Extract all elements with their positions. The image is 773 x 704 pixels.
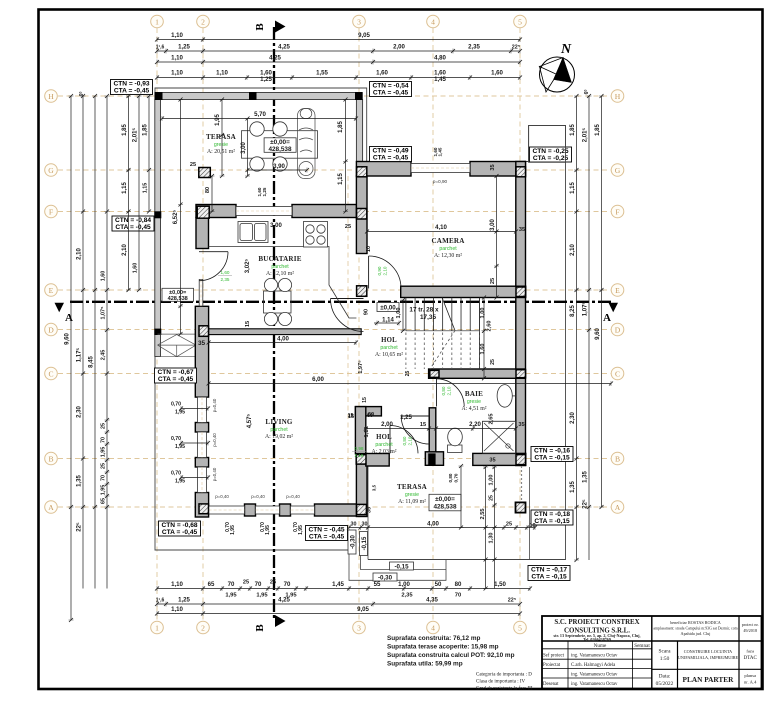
svg-text:70: 70 xyxy=(255,581,262,588)
svg-text:1,25: 1,25 xyxy=(178,597,190,604)
svg-text:17 tr. 28 x: 17 tr. 28 x xyxy=(409,307,439,314)
wc toilet xyxy=(448,428,463,452)
svg-text:Suprafata construita calcul PO: Suprafata construita calcul POT: 92,10 m… xyxy=(387,652,515,659)
svg-text:Grad de rezistenta la foc: II: Grad de rezistenta la foc: III xyxy=(476,687,533,692)
svg-text:1: 1 xyxy=(155,623,159,632)
svg-text:428,538: 428,538 xyxy=(168,296,188,302)
svg-text:±0,00=: ±0,00= xyxy=(435,496,455,503)
svg-text:3,00: 3,00 xyxy=(241,142,247,154)
svg-text:1,95: 1,95 xyxy=(101,447,107,458)
svg-text:p=0,90: p=0,90 xyxy=(433,179,448,184)
svg-text:proiect nr.: proiect nr. xyxy=(742,622,759,627)
svg-text:1,60: 1,60 xyxy=(101,271,107,282)
svg-text:CTN = -0,54: CTN = -0,54 xyxy=(372,83,408,90)
svg-text:35: 35 xyxy=(367,507,373,513)
svg-text:60: 60 xyxy=(367,413,373,419)
svg-text:1,95: 1,95 xyxy=(298,525,304,535)
svg-text:1,60: 1,60 xyxy=(376,70,388,77)
svg-text:HOL: HOL xyxy=(381,337,397,344)
svg-text:1,35: 1,35 xyxy=(77,475,83,487)
svg-text:35: 35 xyxy=(518,422,524,428)
svg-text:Suprafata utila: 59,99 mp: Suprafata utila: 59,99 mp xyxy=(387,661,463,668)
svg-text:0,70: 0,70 xyxy=(171,471,181,477)
svg-text:70: 70 xyxy=(228,581,235,588)
terrace columns (black) xyxy=(154,92,362,335)
svg-text:CTN = -0,18: CTN = -0,18 xyxy=(534,511,570,518)
svg-text:2: 2 xyxy=(201,17,205,26)
svg-text:CAMERA: CAMERA xyxy=(431,237,465,245)
svg-text:5: 5 xyxy=(518,623,522,632)
svg-text:1,45: 1,45 xyxy=(434,76,446,83)
svg-text:1,95: 1,95 xyxy=(175,479,185,485)
right dimension chains xyxy=(576,96,578,560)
svg-text:1,45: 1,45 xyxy=(332,581,344,588)
svg-text:6,00: 6,00 xyxy=(312,376,324,383)
svg-text:4,00: 4,00 xyxy=(427,521,439,528)
svg-text:3: 3 xyxy=(357,623,361,632)
svg-text:9,60: 9,60 xyxy=(595,328,601,340)
svg-text:1,10: 1,10 xyxy=(171,606,183,613)
svg-text:1,10: 1,10 xyxy=(216,70,228,77)
svg-text:6,52⁵: 6,52⁵ xyxy=(173,210,179,225)
svg-text:parchet: parchet xyxy=(270,427,288,433)
svg-text:70: 70 xyxy=(101,475,107,481)
svg-text:0,80: 0,80 xyxy=(402,436,407,445)
svg-text:CTN = -0,25: CTN = -0,25 xyxy=(532,148,568,155)
svg-text:25: 25 xyxy=(506,522,512,528)
svg-text:2,30: 2,30 xyxy=(570,412,576,424)
svg-text:1:50: 1:50 xyxy=(660,656,670,662)
svg-text:25: 25 xyxy=(101,423,107,429)
svg-text:CTA = -0,45: CTA = -0,45 xyxy=(309,534,345,541)
svg-text:4: 4 xyxy=(431,623,435,632)
svg-text:±0,00=: ±0,00= xyxy=(169,290,187,296)
svg-text:ing. Vatamanescu Octav: ing. Vatamanescu Octav xyxy=(571,673,618,678)
svg-text:4,57⁵: 4,57⁵ xyxy=(247,414,253,429)
svg-text:1,85: 1,85 xyxy=(338,121,344,133)
svg-text:2,10: 2,10 xyxy=(122,244,128,256)
svg-text:-0,30: -0,30 xyxy=(350,535,356,549)
svg-text:1,10: 1,10 xyxy=(171,32,183,39)
svg-text:±0,00: ±0,00 xyxy=(380,304,396,311)
svg-text:4,25: 4,25 xyxy=(278,44,290,51)
svg-text:4,00: 4,00 xyxy=(277,336,289,343)
svg-text:1,85: 1,85 xyxy=(595,124,601,136)
svg-text:C: C xyxy=(48,369,53,378)
svg-text:1,00: 1,00 xyxy=(480,308,486,319)
svg-text:2,30: 2,30 xyxy=(77,406,83,418)
west porch canopy xyxy=(158,334,197,357)
svg-text:10: 10 xyxy=(366,246,372,252)
svg-text:A: 4,51 m²: A: 4,51 m² xyxy=(461,406,486,412)
svg-text:-0,15: -0,15 xyxy=(394,563,409,570)
svg-text:3,5: 3,5 xyxy=(372,484,377,491)
svg-text:A: 12,30 m²: A: 12,30 m² xyxy=(434,253,462,259)
level boxes xyxy=(264,138,296,153)
svg-text:1,00: 1,00 xyxy=(396,308,402,319)
svg-text:15: 15 xyxy=(420,422,426,428)
svg-text:1,35: 1,35 xyxy=(570,481,576,493)
svg-text:25: 25 xyxy=(345,224,351,230)
svg-text:D: D xyxy=(48,325,54,334)
svg-text:CTN = -0,67: CTN = -0,67 xyxy=(157,369,193,376)
svg-text:Semnat: Semnat xyxy=(634,643,650,649)
svg-text:90: 90 xyxy=(364,309,370,315)
svg-text:CTA = -0,15: CTA = -0,15 xyxy=(534,518,570,525)
svg-text:nr. A.4: nr. A.4 xyxy=(744,680,757,685)
grid axis dashed lines xyxy=(156,28,158,621)
svg-text:0,70: 0,70 xyxy=(171,436,181,442)
svg-text:gresie: gresie xyxy=(214,142,228,148)
svg-text:beneficiar ROSTAS RODICA: beneficiar ROSTAS RODICA xyxy=(670,620,721,625)
svg-text:8,45: 8,45 xyxy=(89,356,95,368)
svg-text:2,10: 2,10 xyxy=(77,248,83,260)
roof overhang outline xyxy=(155,88,566,560)
svg-text:Sef proiect: Sef proiect xyxy=(543,654,565,659)
svg-text:CTA = -0,45: CTA = -0,45 xyxy=(114,88,150,95)
svg-text:4,35: 4,35 xyxy=(426,597,438,604)
svg-text:PLAN PARTER: PLAN PARTER xyxy=(683,675,735,684)
svg-text:1,95: 1,95 xyxy=(175,444,185,450)
svg-text:A: 20,51 m²: A: 20,51 m² xyxy=(207,149,235,155)
svg-text:Suprafata terase acoperite: 15: Suprafata terase acoperite: 15,98 mp xyxy=(387,644,499,651)
svg-text:1¹,6: 1¹,6 xyxy=(156,45,165,51)
svg-text:p=0,40: p=0,40 xyxy=(212,467,217,481)
svg-text:9,05: 9,05 xyxy=(358,32,370,39)
svg-text:25: 25 xyxy=(101,463,107,469)
svg-text:30: 30 xyxy=(362,522,368,528)
svg-text:4,80: 4,80 xyxy=(434,55,446,62)
svg-text:TERASA: TERASA xyxy=(397,483,428,491)
svg-text:CTA = -0,15: CTA = -0,15 xyxy=(531,574,567,581)
svg-text:faza: faza xyxy=(746,649,754,654)
svg-text:25: 25 xyxy=(270,580,276,586)
door arcs xyxy=(368,256,370,289)
svg-text:p=0,40: p=0,40 xyxy=(286,494,300,499)
svg-text:10: 10 xyxy=(529,523,535,529)
svg-text:Nume: Nume xyxy=(594,643,607,649)
svg-text:22⁵: 22⁵ xyxy=(77,522,83,532)
axis bubbles xyxy=(151,15,164,28)
svg-text:0,80: 0,80 xyxy=(441,386,446,395)
svg-text:0,80: 0,80 xyxy=(448,473,453,482)
svg-text:Apahida jud. Cluj: Apahida jud. Cluj xyxy=(681,631,711,636)
svg-text:25: 25 xyxy=(489,495,495,501)
svg-text:15: 15 xyxy=(245,321,251,327)
svg-text:DTAC: DTAC xyxy=(744,656,758,661)
svg-text:428,538: 428,538 xyxy=(268,146,292,153)
CTN/CTA boxes xyxy=(111,80,153,95)
svg-text:CONSTRUIRE LOCUINTA: CONSTRUIRE LOCUINTA xyxy=(684,649,732,654)
section line A-A xyxy=(70,301,612,303)
svg-text:2: 2 xyxy=(201,623,205,632)
svg-text:2,01⁵: 2,01⁵ xyxy=(583,128,589,143)
svg-text:Suprafata construita: 76,12 mp: Suprafata construita: 76,12 mp xyxy=(387,635,480,642)
svg-text:1,95: 1,95 xyxy=(101,485,107,496)
washbasin xyxy=(497,385,512,408)
lounge figure xyxy=(298,108,316,178)
svg-text:0,98: 0,98 xyxy=(355,446,364,451)
svg-text:ing. Vatamanescu Octav: ing. Vatamanescu Octav xyxy=(571,654,618,659)
svg-text:H: H xyxy=(615,92,621,101)
windows xyxy=(236,207,292,216)
svg-text:1,15: 1,15 xyxy=(570,182,576,194)
terrace steps outline xyxy=(349,550,446,580)
svg-text:35: 35 xyxy=(489,458,495,464)
svg-text:1,15: 1,15 xyxy=(122,182,128,194)
svg-text:65: 65 xyxy=(101,498,107,504)
svg-text:1,60: 1,60 xyxy=(491,70,503,77)
svg-text:2,10: 2,10 xyxy=(570,244,576,256)
svg-text:A: 2,03 m²: A: 2,03 m² xyxy=(371,449,396,455)
svg-text:25: 25 xyxy=(190,162,196,168)
svg-text:parchet: parchet xyxy=(271,264,289,270)
svg-text:70: 70 xyxy=(101,437,107,443)
svg-text:2,20: 2,20 xyxy=(469,421,481,428)
svg-text:p=0,40: p=0,40 xyxy=(212,398,217,412)
svg-text:80: 80 xyxy=(455,581,462,588)
svg-text:1,45: 1,45 xyxy=(438,147,443,156)
svg-text:5: 5 xyxy=(518,17,522,26)
terrace top parapet walls xyxy=(155,93,362,100)
svg-text:1,17⁵: 1,17⁵ xyxy=(77,348,83,363)
svg-text:2,35: 2,35 xyxy=(221,277,230,282)
svg-text:p=0,40: p=0,40 xyxy=(212,433,217,447)
svg-text:3,00: 3,00 xyxy=(490,219,496,231)
svg-text:A: A xyxy=(603,312,611,324)
svg-text:Tel. 0266438769: Tel. 0266438769 xyxy=(583,637,611,642)
svg-text:CTA = -0,25: CTA = -0,25 xyxy=(533,155,569,162)
svg-text:CTA = -0,45: CTA = -0,45 xyxy=(162,529,198,536)
svg-text:15: 15 xyxy=(362,397,368,403)
svg-text:1,07⁵: 1,07⁵ xyxy=(101,306,107,319)
title block xyxy=(542,616,762,689)
svg-text:2,10: 2,10 xyxy=(408,436,413,445)
svg-text:1,14: 1,14 xyxy=(382,318,394,324)
svg-text:CTN = -0,93: CTN = -0,93 xyxy=(113,81,149,88)
svg-text:A: A xyxy=(615,503,621,512)
svg-text:3: 3 xyxy=(357,17,361,26)
bottom dimension chains xyxy=(157,588,530,590)
svg-text:1,97⁵: 1,97⁵ xyxy=(358,360,364,374)
svg-text:parchet: parchet xyxy=(380,345,398,351)
svg-text:plansa: plansa xyxy=(744,673,756,678)
svg-text:6⁰: 6⁰ xyxy=(584,90,590,95)
svg-text:65: 65 xyxy=(208,581,215,588)
svg-text:F: F xyxy=(49,207,53,216)
svg-text:Proiectat: Proiectat xyxy=(543,663,561,668)
svg-text:S.C. PROIECT CONSTREX: S.C. PROIECT CONSTREX xyxy=(554,619,639,626)
svg-text:TERASA: TERASA xyxy=(206,133,237,141)
svg-text:1,85: 1,85 xyxy=(143,124,149,136)
svg-text:22⁵: 22⁵ xyxy=(508,598,517,604)
svg-text:30: 30 xyxy=(351,522,357,528)
svg-text:A: 10,65 m²: A: 10,65 m² xyxy=(375,352,403,358)
svg-text:55: 55 xyxy=(374,581,381,588)
svg-text:2,45: 2,45 xyxy=(101,350,107,361)
svg-text:25: 25 xyxy=(405,371,411,377)
svg-text:70: 70 xyxy=(284,581,291,588)
svg-text:H: H xyxy=(48,92,54,101)
svg-text:1,95: 1,95 xyxy=(225,593,237,599)
svg-text:1,85: 1,85 xyxy=(570,124,576,136)
svg-text:2,10: 2,10 xyxy=(383,266,388,275)
top dimension chains xyxy=(157,39,520,41)
stove xyxy=(304,222,328,248)
svg-text:gresie: gresie xyxy=(467,399,481,405)
svg-text:25: 25 xyxy=(243,580,249,586)
svg-text:1,25: 1,25 xyxy=(178,44,190,51)
svg-text:B: B xyxy=(615,454,620,463)
stairs xyxy=(405,298,407,331)
svg-text:0,90: 0,90 xyxy=(377,266,382,275)
svg-text:p=0,40: p=0,40 xyxy=(251,494,265,499)
svg-text:22⁵: 22⁵ xyxy=(583,499,589,509)
svg-text:22⁵: 22⁵ xyxy=(512,45,521,51)
svg-text:Categoria de importanta : D: Categoria de importanta : D xyxy=(476,673,532,678)
svg-text:4,10: 4,10 xyxy=(435,224,447,231)
interior dimension lines and labels xyxy=(162,118,356,120)
svg-text:1,95: 1,95 xyxy=(265,525,271,535)
svg-text:Clasa de importanta :: Clasa de importanta : IV xyxy=(476,680,526,685)
svg-text:C: C xyxy=(615,369,620,378)
svg-text:05/2022: 05/2022 xyxy=(656,681,674,687)
svg-text:BAIE: BAIE xyxy=(465,390,483,398)
svg-text:50: 50 xyxy=(435,581,442,588)
svg-text:6⁰: 6⁰ xyxy=(79,92,85,97)
hatched columns xyxy=(197,206,209,218)
svg-text:1,25: 1,25 xyxy=(260,76,272,83)
svg-text:1,25: 1,25 xyxy=(262,187,267,196)
svg-text:2,18: 2,18 xyxy=(355,453,364,458)
svg-text:70: 70 xyxy=(455,593,461,599)
svg-text:B: B xyxy=(48,454,53,463)
svg-text:1,60: 1,60 xyxy=(133,263,139,274)
svg-text:CTN = -0,68: CTN = -0,68 xyxy=(161,522,197,529)
svg-text:2,01⁵: 2,01⁵ xyxy=(133,128,139,143)
kitchen counter xyxy=(209,247,357,319)
svg-text:E: E xyxy=(615,286,620,295)
svg-text:15: 15 xyxy=(348,413,354,419)
svg-text:1,25: 1,25 xyxy=(400,414,412,421)
svg-text:1,07⁵: 1,07⁵ xyxy=(583,302,589,317)
svg-text:2,00: 2,00 xyxy=(393,44,405,51)
north arrow xyxy=(540,57,575,92)
svg-text:1,95: 1,95 xyxy=(230,525,236,535)
svg-text:9,60: 9,60 xyxy=(65,333,71,345)
svg-text:CTA = -0,45: CTA = -0,45 xyxy=(373,90,409,97)
shower xyxy=(483,421,516,453)
svg-text:1,60: 1,60 xyxy=(221,270,230,275)
svg-text:HOL: HOL xyxy=(376,434,392,441)
svg-text:2,55: 2,55 xyxy=(480,509,486,520)
svg-text:1,95: 1,95 xyxy=(215,114,221,126)
svg-text:1,00: 1,00 xyxy=(398,581,410,588)
svg-text:CTN = -0,16: CTN = -0,16 xyxy=(534,448,570,455)
svg-text:gresie: gresie xyxy=(405,492,419,498)
svg-text:1,15: 1,15 xyxy=(143,183,149,194)
svg-text:parchet: parchet xyxy=(439,246,457,252)
svg-text:35: 35 xyxy=(490,164,496,170)
svg-text:A: 11,09 m²: A: 11,09 m² xyxy=(398,499,426,505)
svg-text:1,50: 1,50 xyxy=(494,581,506,588)
svg-text:CTA = -0,45: CTA = -0,45 xyxy=(158,376,194,383)
svg-text:LIVING: LIVING xyxy=(265,418,292,426)
svg-text:BUCATARIE: BUCATARIE xyxy=(258,255,301,263)
svg-text:4,25: 4,25 xyxy=(269,55,281,62)
svg-text:1¹,6: 1¹,6 xyxy=(156,598,165,604)
svg-text:C.arh. Halmagyi Adela: C.arh. Halmagyi Adela xyxy=(571,663,616,668)
terrace table and chairs xyxy=(242,131,318,159)
svg-text:A: A xyxy=(48,503,54,512)
svg-text:1,85: 1,85 xyxy=(122,124,128,136)
svg-text:0,70: 0,70 xyxy=(454,473,459,482)
svg-text:428,538: 428,538 xyxy=(433,504,457,511)
svg-text:p=0,40: p=0,40 xyxy=(215,494,229,499)
svg-text:Scara: Scara xyxy=(659,649,672,655)
building walls xyxy=(196,205,236,218)
svg-text:B: B xyxy=(254,624,266,632)
svg-text:1,10: 1,10 xyxy=(364,427,370,438)
svg-text:parchet: parchet xyxy=(375,442,393,448)
left dimension chains xyxy=(70,96,72,620)
svg-text:1,95: 1,95 xyxy=(256,593,268,599)
svg-text:1,00: 1,00 xyxy=(489,475,495,486)
svg-text:2,35: 2,35 xyxy=(401,593,413,599)
svg-text:2,00: 2,00 xyxy=(381,421,393,428)
svg-text:1,55: 1,55 xyxy=(316,70,328,77)
svg-text:ing. Vatamanescu Octav: ing. Vatamanescu Octav xyxy=(571,682,618,687)
svg-text:25: 25 xyxy=(490,278,496,284)
svg-text:G: G xyxy=(48,166,54,175)
svg-text:4: 4 xyxy=(431,17,435,26)
annex outline top-right xyxy=(529,126,566,163)
svg-text:4,25: 4,25 xyxy=(278,597,290,604)
kitchen sink xyxy=(238,222,268,243)
svg-text:CTA = -0,45: CTA = -0,45 xyxy=(373,155,409,162)
svg-text:N: N xyxy=(560,42,572,57)
svg-text:CTA = -0,45: CTA = -0,45 xyxy=(115,224,151,231)
svg-text:1,30: 1,30 xyxy=(489,533,495,544)
kitchen table xyxy=(264,291,292,313)
svg-text:3,90: 3,90 xyxy=(273,163,285,170)
svg-text:B: B xyxy=(254,23,266,31)
svg-text:5,70: 5,70 xyxy=(254,111,266,118)
svg-text:1,35: 1,35 xyxy=(583,471,589,483)
svg-text:1,10: 1,10 xyxy=(171,581,183,588)
svg-text:35: 35 xyxy=(519,227,525,233)
svg-text:2,35: 2,35 xyxy=(468,44,480,51)
svg-text:CTN = -0,49: CTN = -0,49 xyxy=(372,148,408,155)
svg-text:1: 1 xyxy=(155,17,159,26)
svg-text:A: 19,02 m²: A: 19,02 m² xyxy=(265,434,293,440)
svg-text:Data:: Data: xyxy=(659,674,671,680)
svg-text:F: F xyxy=(615,207,619,216)
svg-text:49/2018: 49/2018 xyxy=(743,628,757,633)
svg-text:35: 35 xyxy=(198,340,206,347)
svg-text:1,60: 1,60 xyxy=(480,344,486,355)
svg-text:1,95: 1,95 xyxy=(175,410,185,416)
svg-text:3,02⁵: 3,02⁵ xyxy=(245,259,251,274)
svg-text:1,10: 1,10 xyxy=(171,55,183,62)
svg-text:E: E xyxy=(49,286,54,295)
svg-text:17,35: 17,35 xyxy=(420,314,436,321)
svg-text:2,60: 2,60 xyxy=(487,321,493,332)
black door jamb xyxy=(428,453,435,465)
svg-text:-0,15: -0,15 xyxy=(362,536,368,550)
section line B-B xyxy=(273,27,275,621)
svg-text:1,15: 1,15 xyxy=(338,173,344,185)
